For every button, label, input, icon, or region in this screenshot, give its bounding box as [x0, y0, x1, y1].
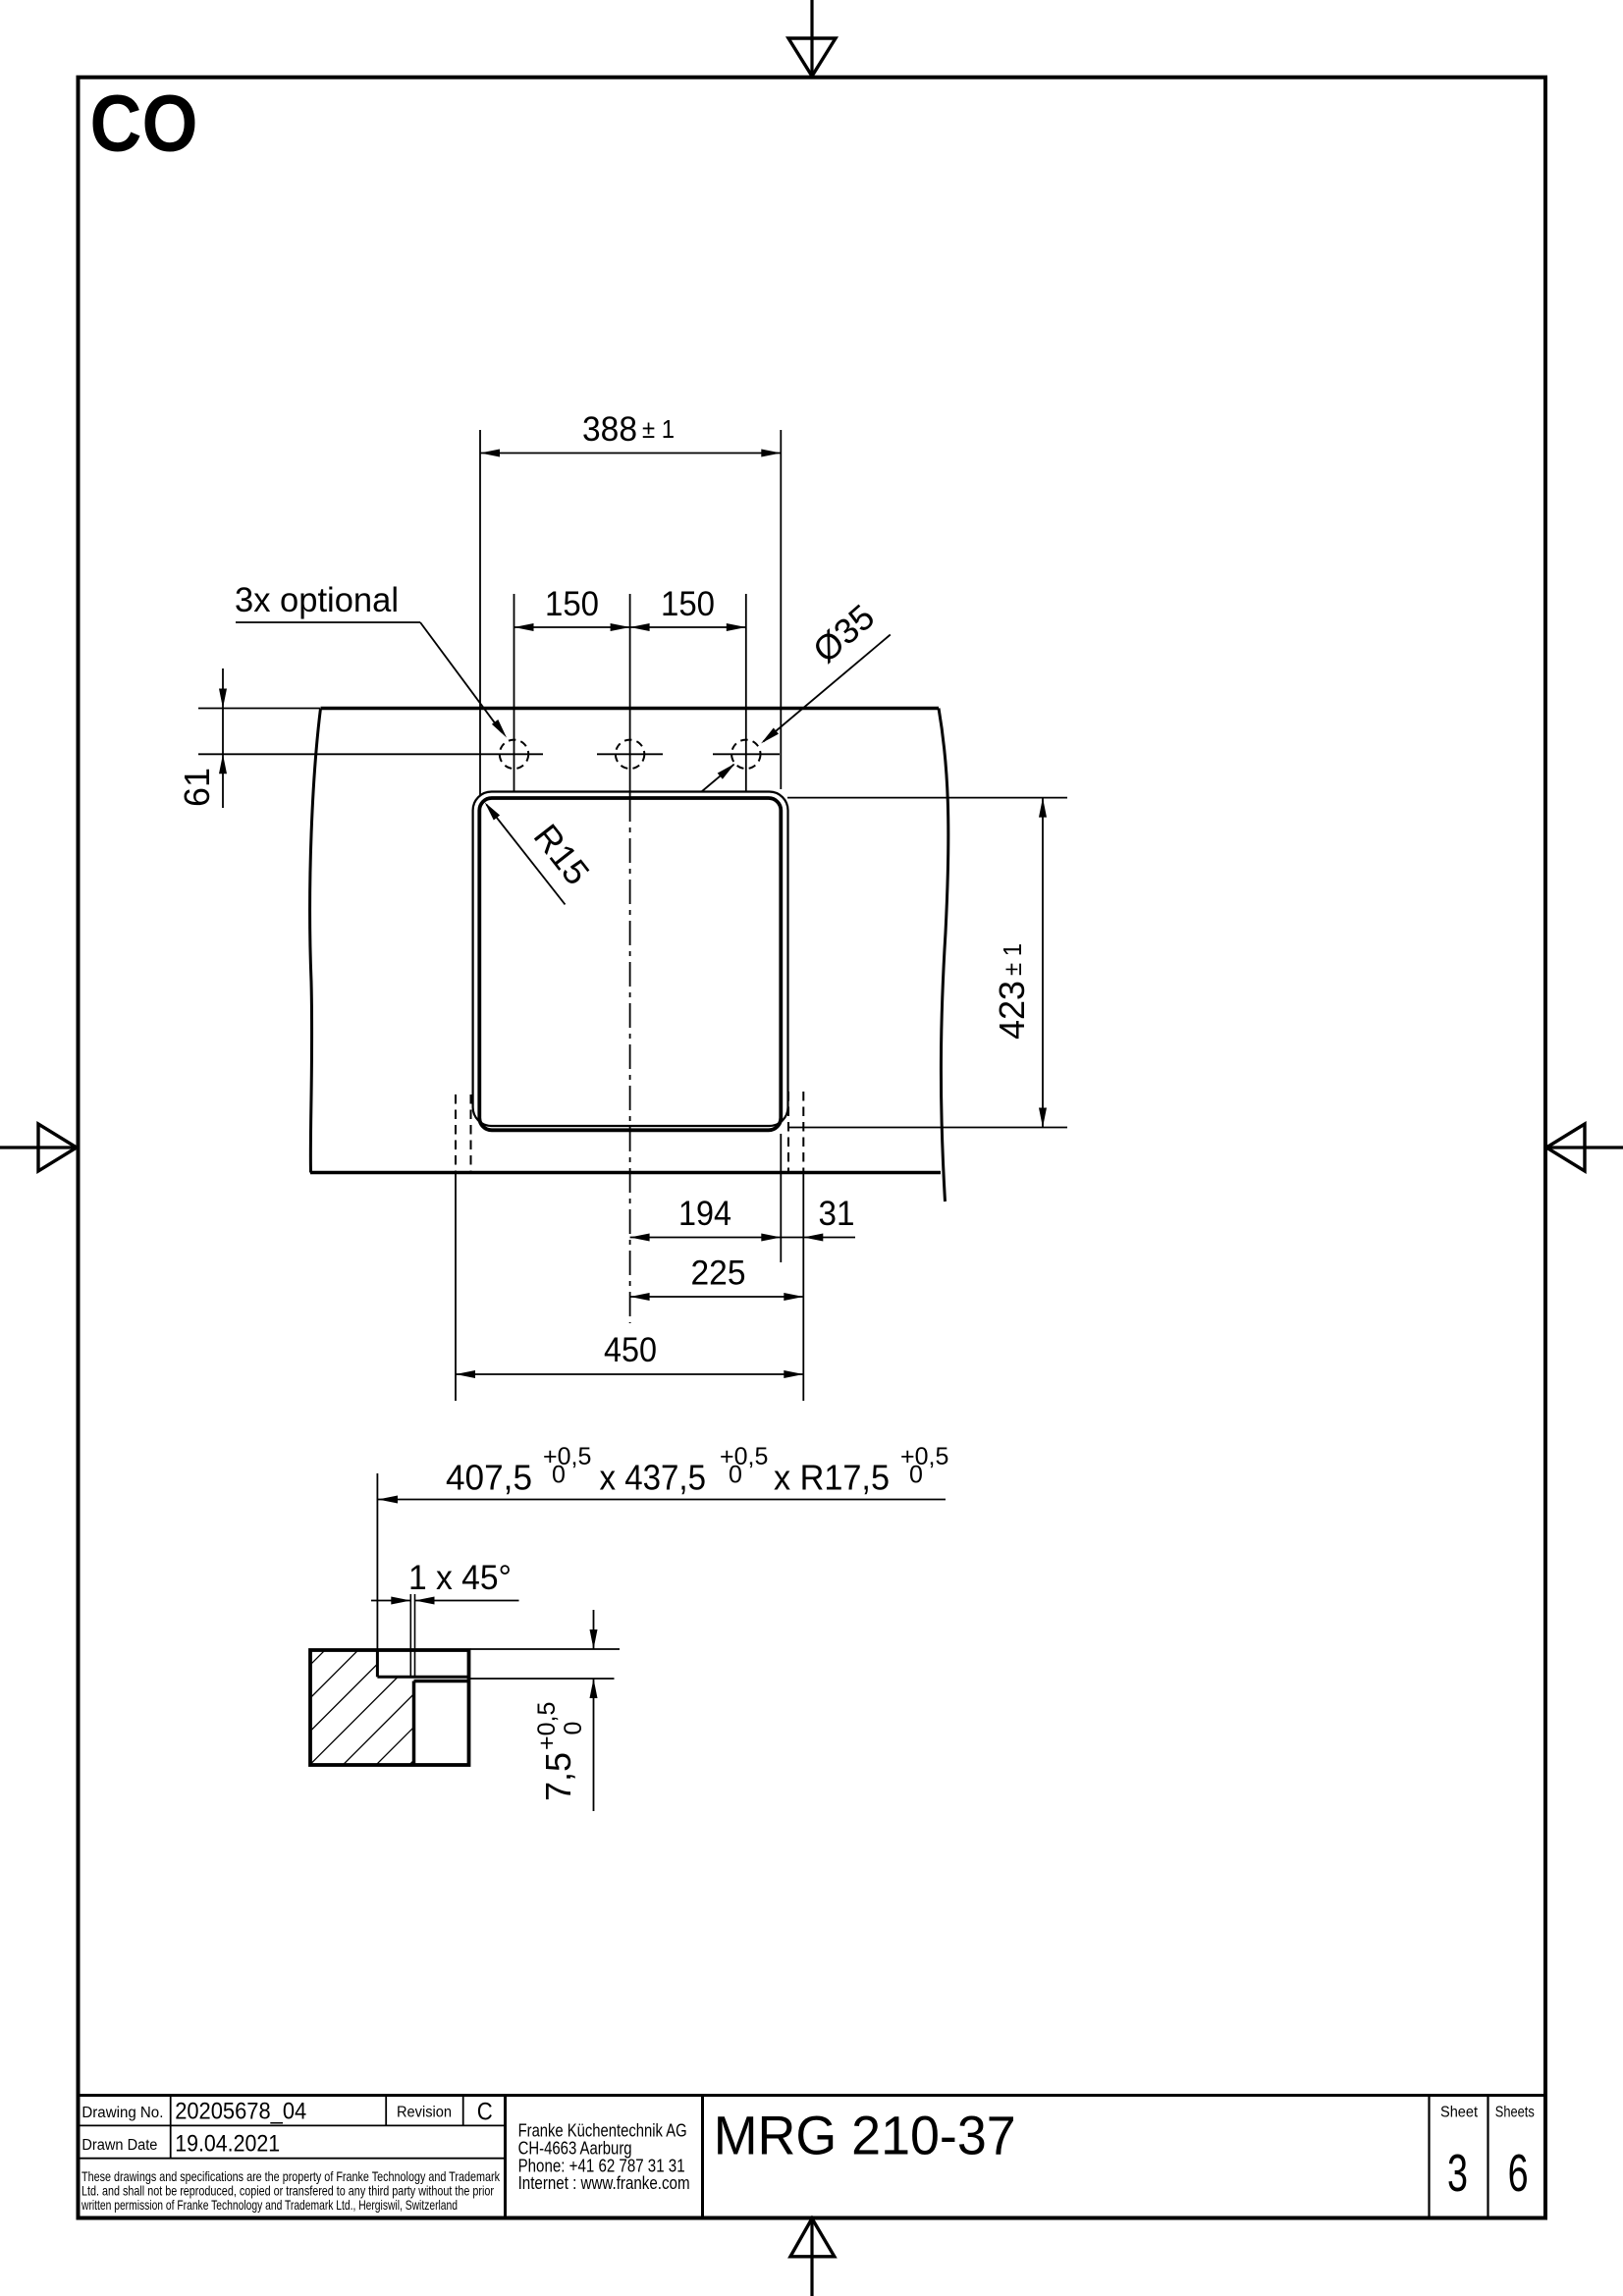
- dim 423 dimension line: [1039, 798, 1047, 1128]
- hole 1 centre cross horizontal + 61 dim lower extension: [198, 753, 543, 755]
- svg-text:3: 3: [1447, 2144, 1468, 2203]
- svg-text:7,5: 7,5: [538, 1752, 578, 1801]
- chamfer dim right segment: [415, 1597, 519, 1605]
- hole 2 centre cross horizontal: [597, 753, 663, 755]
- dim 450 dimension line: [456, 1370, 803, 1378]
- dim 61 top extension line: [198, 708, 320, 710]
- svg-text:0: 0: [552, 1462, 566, 1489]
- svg-text:Drawing No.: Drawing No.: [81, 2105, 163, 2121]
- section outline (worktop block): [310, 1650, 469, 1765]
- svg-text:+0,5: +0,5: [543, 1443, 591, 1470]
- cutout size note extension line: [376, 1473, 378, 1650]
- svg-text:3x optional: 3x optional: [235, 581, 399, 619]
- sink outer outline (thin rounded rect): [473, 792, 788, 1127]
- hole 3 centre cross horizontal: [713, 753, 780, 755]
- title block row divider 2: [77, 2158, 506, 2160]
- svg-text:± 1: ± 1: [642, 414, 675, 444]
- title block revision divider: [385, 2096, 387, 2126]
- section rebate floor: [377, 1676, 468, 1679]
- svg-text:20205678_04: 20205678_04: [175, 2099, 306, 2125]
- dim 61 dimension line: [219, 668, 227, 808]
- R15 leader line: [485, 802, 566, 904]
- svg-text:388: 388: [582, 410, 637, 449]
- dim 7,5 dimension line lower: [590, 1679, 598, 1811]
- dia 35 leader lower arrow segment: [702, 764, 735, 792]
- title block top edge: [77, 2094, 1545, 2097]
- top registration mark: [788, 0, 836, 78]
- section rebate left wall: [376, 1650, 379, 1677]
- dim 450 extension line left: [455, 1173, 457, 1402]
- dim 194 dimension line: [630, 1234, 782, 1242]
- svg-text:± 1: ± 1: [998, 943, 1027, 976]
- svg-text:423: 423: [992, 981, 1032, 1040]
- dim 194/31 extension line at cutout right: [780, 1134, 782, 1262]
- svg-text:Ltd. and shall not be reproduc: Ltd. and shall not be reproduced, copied…: [81, 2183, 494, 2199]
- title block sheets divider: [1487, 2096, 1488, 2218]
- svg-text:450: 450: [604, 1331, 657, 1369]
- section sink rim top edge: [414, 1680, 469, 1683]
- svg-text:+0,5: +0,5: [533, 1702, 561, 1750]
- section sink rim left edge: [412, 1682, 416, 1766]
- hidden sink edge left inner (dashed): [470, 1095, 472, 1173]
- svg-text:written permission of Franke T: written permission of Franke Technology …: [81, 2197, 458, 2213]
- svg-text:Revision: Revision: [397, 2105, 452, 2121]
- dim 150 left dimension line: [514, 623, 630, 631]
- svg-text:Drawn Date: Drawn Date: [81, 2137, 157, 2154]
- svg-text:225: 225: [691, 1255, 746, 1293]
- dim 7,5 top extension line: [470, 1648, 620, 1650]
- svg-text:31: 31: [819, 1195, 855, 1233]
- svg-text:19.04.2021: 19.04.2021: [175, 2131, 280, 2158]
- svg-text:+0,5: +0,5: [900, 1443, 948, 1470]
- hole 2 centre vertical solid part: [629, 594, 631, 797]
- svg-text:150: 150: [661, 585, 715, 623]
- dim 423 bottom extension line: [787, 1127, 1067, 1129]
- vertical centreline through cutout (dash-dot): [629, 797, 631, 1323]
- svg-text:These drawings and specificati: These drawings and specifications are th…: [81, 2168, 501, 2184]
- dia 35 leader line upper: [761, 635, 891, 744]
- svg-text:150: 150: [545, 585, 599, 623]
- hidden sink edge left outer (dashed): [455, 1095, 457, 1173]
- svg-text:+0,5: +0,5: [720, 1443, 768, 1470]
- svg-text:Sheets: Sheets: [1495, 2105, 1535, 2121]
- cutout size note leader line: [378, 1496, 946, 1504]
- svg-text:407,5: 407,5: [446, 1458, 532, 1498]
- title block sheet divider: [1428, 2096, 1430, 2218]
- title block row divider 1: [77, 2124, 506, 2126]
- dim 388 right extension line: [780, 430, 782, 789]
- countertop top edge: [321, 707, 940, 711]
- chamfer dim left segment: [371, 1597, 410, 1605]
- left registration mark: [0, 1124, 79, 1171]
- svg-text:x 437,5: x 437,5: [600, 1458, 707, 1498]
- faucet hole 2 (dashed circle): [616, 740, 644, 769]
- svg-text:C: C: [477, 2099, 493, 2126]
- chamfer extension line left: [409, 1594, 411, 1677]
- dim 225/450 extension line right: [802, 1173, 804, 1402]
- chamfer extension line right: [414, 1594, 416, 1677]
- hidden sink edge right outer (dashed): [802, 1092, 804, 1173]
- hole 1 centre vertical / 150 dim extension: [514, 594, 515, 791]
- title block franke cell left edge: [504, 2096, 507, 2218]
- dim 423 top extension line: [787, 797, 1067, 799]
- dim 7,5 dimension line upper: [590, 1610, 598, 1649]
- countertop right break line: [939, 709, 948, 1202]
- svg-text:194: 194: [678, 1195, 731, 1233]
- right registration mark: [1545, 1124, 1623, 1171]
- svg-text:Internet : www.franke.com: Internet : www.franke.com: [518, 2172, 690, 2193]
- dim 388 left extension line: [479, 430, 481, 795]
- faucet hole 3 (dashed circle): [731, 740, 760, 769]
- title block label/value divider: [170, 2096, 172, 2159]
- countertop bottom edge: [310, 1171, 941, 1175]
- dim 388 dimension line: [480, 450, 781, 457]
- hidden sink edge right inner (dashed): [787, 1092, 789, 1173]
- title block franke cell right edge: [701, 2096, 704, 2218]
- cutout outline (thick rounded rect): [479, 798, 781, 1130]
- 3x optional leader line: [236, 622, 507, 738]
- svg-text:0: 0: [729, 1462, 742, 1489]
- svg-text:x R17,5: x R17,5: [774, 1458, 890, 1498]
- dim 7,5 bottom extension line: [470, 1678, 615, 1680]
- dim 150 right dimension line: [630, 623, 746, 631]
- svg-text:6: 6: [1508, 2144, 1529, 2203]
- svg-text:0: 0: [909, 1462, 923, 1489]
- svg-text:CO: CO: [90, 80, 198, 169]
- svg-text:1 x 45°: 1 x 45°: [408, 1559, 512, 1597]
- dim 225 dimension line: [630, 1293, 804, 1301]
- title block revision value divider: [462, 2096, 464, 2126]
- hole 3 centre vertical / 150 dim extension: [745, 594, 747, 791]
- bottom registration mark: [790, 2218, 835, 2296]
- svg-text:Sheet: Sheet: [1440, 2105, 1479, 2121]
- svg-text:0: 0: [560, 1722, 587, 1735]
- svg-text:MRG 210-37: MRG 210-37: [714, 2105, 1016, 2166]
- svg-text:61: 61: [177, 768, 217, 807]
- dim 31 dimension line and tail: [781, 1234, 855, 1242]
- faucet hole 1 (dashed circle): [500, 740, 528, 769]
- countertop left break line: [310, 709, 321, 1173]
